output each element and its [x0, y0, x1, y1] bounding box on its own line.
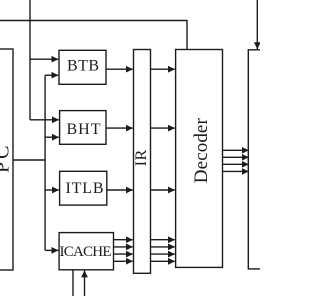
wire arrow A to BTB	[30, 58, 58, 60]
wire ICACHE to IR bit1	[114, 239, 133, 241]
svg-text:Decoder: Decoder	[191, 118, 212, 184]
block BHT	[60, 111, 106, 145]
block right (cut off)	[248, 50, 266, 269]
wire top horizontal to Decoder	[0, 21, 187, 50]
svg-text:ICACHE: ICACHE	[60, 244, 112, 260]
register PC	[0, 49, 13, 270]
block ICACHE	[59, 233, 113, 270]
wire Decoder out1	[223, 149, 249, 151]
wire IR to Decoder row1	[151, 68, 175, 70]
wire ICACHE down output	[72, 270, 74, 296]
wire Decoder out4	[223, 170, 249, 172]
wire arrow B to BHT	[45, 136, 59, 138]
wire Decoder out2	[223, 156, 249, 158]
wire up arrow into ICACHE	[84, 271, 86, 296]
wire IR to Decoder bit2	[151, 246, 175, 248]
svg-text:BHT: BHT	[67, 121, 101, 138]
block BTB	[59, 50, 106, 84]
wire IR to Decoder bit1	[151, 239, 175, 241]
svg-text:PC: PC	[0, 146, 14, 174]
wire vertical A from top	[29, 0, 31, 120]
wire IR to Decoder row2	[151, 127, 175, 129]
wire Decoder out3	[223, 163, 249, 165]
wire ITLB to IR	[107, 189, 133, 191]
wire BHT to IR	[106, 127, 133, 129]
wire ICACHE to IR bit3	[114, 253, 133, 255]
wire ICACHE to IR bit4	[114, 260, 133, 262]
block ITLB	[60, 171, 107, 205]
wire PC output to bus B	[13, 159, 45, 161]
wire BTB to IR	[106, 68, 133, 70]
wire arrow B to ICACHE	[45, 249, 58, 251]
wire IR to Decoder bit3	[151, 253, 175, 255]
wire top right down arrow	[256, 0, 258, 49]
wire vertical bus B from PC	[44, 75, 46, 250]
wire IR to Decoder bit4	[151, 260, 175, 262]
svg-text:ITLB: ITLB	[66, 180, 104, 197]
register IR	[134, 50, 151, 274]
wire IR to Decoder row3	[151, 189, 175, 191]
svg-text:IR: IR	[133, 149, 150, 166]
block Decoder	[176, 50, 223, 268]
wire arrow B to ITLB	[45, 189, 59, 191]
wire arrow A to BHT	[30, 119, 59, 121]
wire arrow B to BTB	[45, 74, 58, 76]
svg-text:BTB: BTB	[67, 58, 99, 75]
wire ICACHE to IR bit2	[114, 246, 133, 248]
